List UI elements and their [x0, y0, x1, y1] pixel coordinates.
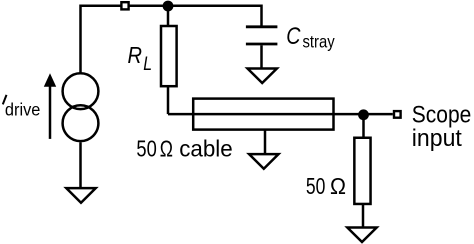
resistor R_L body — [161, 26, 177, 86]
svg-text:Ω: Ω — [330, 173, 346, 199]
current source I_drive (two circles) — [63, 73, 99, 109]
svg-text:Ω: Ω — [160, 136, 173, 162]
svg-text:C: C — [286, 23, 301, 50]
svg-text:L: L — [143, 54, 152, 75]
wire 50 ohm resistor to ground — [362, 205, 365, 228]
ground (capacitor) — [248, 68, 277, 83]
wire node down to 50 ohm resistor — [362, 114, 365, 138]
terminal square (scope input) — [394, 111, 401, 118]
label I_drive — [3, 95, 7, 105]
terminal square (open square on top wire) — [121, 2, 128, 9]
wire from R_L bottom to cable line — [167, 86, 170, 114]
node junction dot at R_L top — [163, 1, 174, 12]
arrow (current direction, up) — [49, 86, 52, 139]
wire top rail (source top to capacitor top) — [81, 6, 262, 73]
svg-text:R: R — [128, 42, 143, 68]
wire main horizontal through cable to scope — [168, 113, 393, 116]
svg-text:50: 50 — [136, 136, 156, 162]
capacitor C_stray bottom plate — [246, 43, 278, 46]
ground (50 ohm resistor) — [347, 227, 376, 242]
resistor 50 ohm body — [354, 138, 370, 204]
wire capacitor to ground — [260, 45, 263, 68]
50 ohm cable body rectangle — [193, 99, 333, 130]
wire from top node down to R_L — [167, 6, 170, 27]
svg-text:input: input — [412, 125, 462, 152]
ground (current source) — [66, 188, 95, 203]
node junction dot at scope tap — [358, 109, 369, 120]
wire source bottom to ground — [79, 142, 82, 188]
svg-text:stray: stray — [303, 31, 335, 51]
wire cable shield to ground — [264, 130, 267, 154]
ground (cable shield) — [249, 154, 278, 169]
svg-text:drive: drive — [5, 99, 41, 119]
svg-text:50: 50 — [306, 173, 326, 199]
capacitor C_stray top plate — [246, 25, 278, 28]
svg-text:cable: cable — [179, 136, 233, 162]
